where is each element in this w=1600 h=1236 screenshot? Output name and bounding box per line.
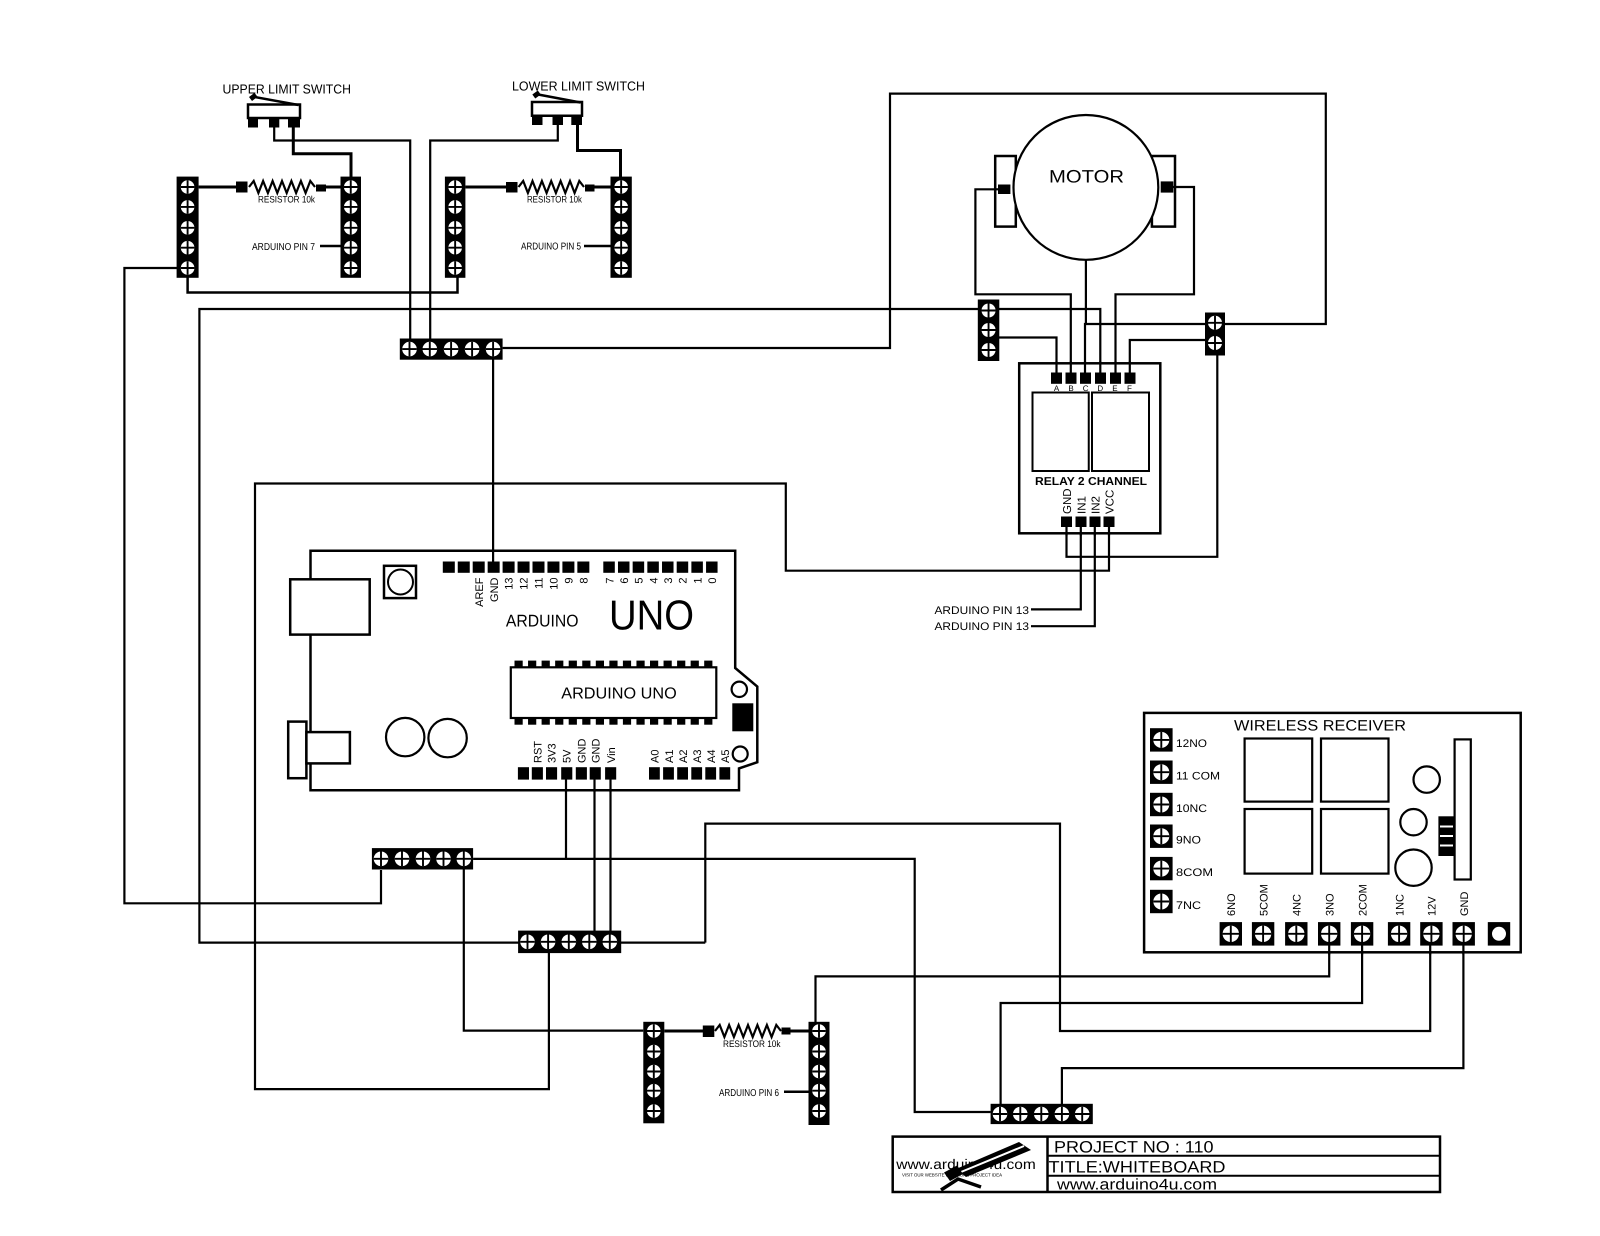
svg-text:A3: A3 (692, 750, 704, 763)
svg-text:10NC: 10NC (1176, 803, 1207, 815)
svg-text:2: 2 (678, 578, 690, 584)
svg-text:1NC: 1NC (1394, 894, 1406, 916)
svg-text:4NC: 4NC (1292, 894, 1304, 916)
svg-text:13: 13 (504, 578, 516, 590)
svg-text:RELAY 2 CHANNEL: RELAY 2 CHANNEL (1035, 476, 1147, 488)
svg-text:7NC: 7NC (1176, 900, 1201, 912)
svg-text:10: 10 (549, 578, 561, 590)
svg-text:8: 8 (578, 578, 590, 584)
svg-text:ARDUINO: ARDUINO (506, 612, 579, 631)
svg-text:WIRELESS RECEIVER: WIRELESS RECEIVER (1234, 718, 1406, 735)
svg-text:2COM: 2COM (1357, 884, 1369, 916)
svg-text:A0: A0 (650, 750, 662, 763)
svg-text:LOWER LIMIT SWITCH: LOWER LIMIT SWITCH (512, 79, 645, 94)
svg-text:PROJECT NO : 110: PROJECT NO : 110 (1054, 1138, 1214, 1156)
svg-text:A: A (1054, 384, 1060, 393)
svg-text:GND: GND (576, 739, 588, 764)
svg-text:RESISTOR 10k: RESISTOR 10k (258, 195, 315, 206)
svg-text:F: F (1127, 384, 1132, 393)
svg-text:E: E (1112, 384, 1117, 393)
svg-text:A5: A5 (720, 750, 732, 763)
svg-text:GND: GND (591, 739, 603, 764)
svg-text:8COM: 8COM (1176, 867, 1213, 879)
svg-text:ARDUINO UNO: ARDUINO UNO (561, 686, 677, 703)
svg-text:5: 5 (634, 578, 646, 584)
svg-text:ARDUINO PIN 5: ARDUINO PIN 5 (521, 242, 581, 253)
svg-text:5V: 5V (561, 749, 573, 763)
svg-text:C: C (1083, 384, 1089, 393)
svg-text:6: 6 (619, 578, 631, 584)
svg-text:7: 7 (604, 578, 616, 584)
svg-text:0: 0 (707, 578, 719, 584)
svg-text:3NO: 3NO (1325, 893, 1337, 916)
svg-text:1: 1 (692, 578, 704, 584)
svg-text:12NO: 12NO (1176, 738, 1207, 750)
svg-text:4: 4 (648, 578, 660, 584)
svg-text:RESISTOR 10k: RESISTOR 10k (527, 195, 582, 206)
svg-text:A2: A2 (678, 750, 690, 763)
svg-text:VCC: VCC (1105, 490, 1117, 514)
svg-text:ARDUINO PIN 13: ARDUINO PIN 13 (935, 605, 1030, 617)
svg-text:6NO: 6NO (1226, 893, 1238, 916)
svg-text:3: 3 (663, 578, 675, 584)
svg-text:3V3: 3V3 (547, 743, 559, 763)
svg-text:9: 9 (564, 578, 576, 584)
svg-text:9NO: 9NO (1176, 835, 1201, 847)
svg-text:A4: A4 (706, 750, 718, 763)
svg-text:MOTOR: MOTOR (1049, 167, 1124, 187)
svg-text:ARDUINO PIN 7: ARDUINO PIN 7 (252, 242, 315, 253)
svg-text:11 COM: 11 COM (1176, 771, 1220, 783)
svg-text:11: 11 (534, 578, 546, 589)
svg-text:ARDUINO PIN 6: ARDUINO PIN 6 (719, 1088, 779, 1099)
svg-text:UNO: UNO (609, 592, 694, 639)
svg-text:RST: RST (533, 741, 545, 763)
svg-text:IN1: IN1 (1076, 496, 1088, 514)
svg-text:RESISTOR 10k: RESISTOR 10k (723, 1039, 781, 1050)
svg-text:IN2: IN2 (1090, 496, 1102, 514)
svg-text:TITLE:WHITEBOARD: TITLE:WHITEBOARD (1049, 1158, 1226, 1176)
svg-text:12V: 12V (1427, 896, 1439, 916)
svg-text:GND: GND (489, 577, 501, 602)
svg-text:D: D (1097, 384, 1103, 393)
svg-text:ARDUINO PIN 13: ARDUINO PIN 13 (935, 621, 1030, 633)
svg-text:Vin: Vin (606, 747, 618, 763)
svg-text:12: 12 (519, 578, 531, 590)
svg-text:A1: A1 (664, 750, 676, 763)
svg-text:5COM: 5COM (1258, 884, 1270, 916)
svg-text:GND: GND (1062, 488, 1074, 514)
svg-text:AREF: AREF (474, 577, 486, 607)
svg-text:B: B (1068, 384, 1073, 393)
svg-text:www.arduino4u.com: www.arduino4u.com (1056, 1176, 1217, 1193)
svg-text:UPPER LIMIT SWITCH: UPPER LIMIT SWITCH (223, 82, 352, 97)
svg-text:GND: GND (1459, 892, 1471, 917)
